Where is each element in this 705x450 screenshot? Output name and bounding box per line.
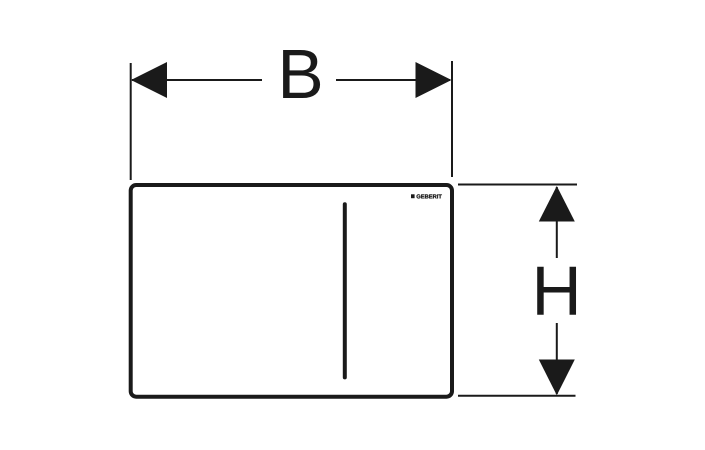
svg-text:B: B bbox=[277, 35, 323, 113]
svg-text:H: H bbox=[531, 251, 581, 329]
